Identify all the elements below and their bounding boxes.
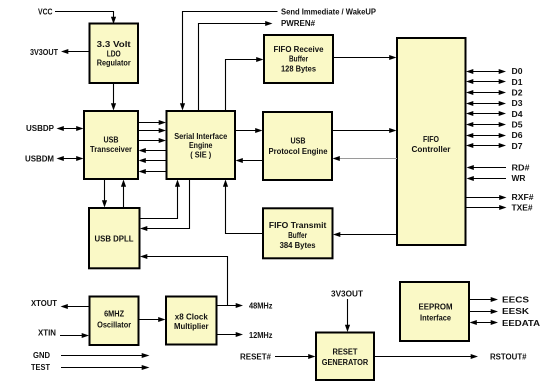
svg-text:Multiplier: Multiplier xyxy=(174,322,209,331)
svg-text:USB: USB xyxy=(291,136,306,145)
wire WR to controller xyxy=(467,176,507,181)
svg-text:USBDP: USBDP xyxy=(26,124,54,133)
svg-text:USB DPLL: USB DPLL xyxy=(95,234,134,243)
pin label EECS xyxy=(502,295,529,304)
svg-text:EEDATA: EEDATA xyxy=(502,319,540,328)
svg-text:EESK: EESK xyxy=(502,307,529,316)
svg-text:48MHz: 48MHz xyxy=(249,302,273,311)
svg-text:EEPROM: EEPROM xyxy=(419,302,453,311)
pin label D1 xyxy=(512,78,524,87)
block U2: USB Transceiver xyxy=(84,111,138,179)
pin label RESET# xyxy=(240,352,272,361)
wire transceiver to USB DPLL xyxy=(102,179,107,208)
wire XTIN to oscillator xyxy=(60,333,89,338)
svg-text:D3: D3 xyxy=(512,99,524,108)
wire EEDATA bidirectional xyxy=(470,320,499,325)
svg-text:FIFO: FIFO xyxy=(423,135,439,144)
wire SIE to transceiver 3 xyxy=(139,169,167,174)
wire SIE to PWREN# xyxy=(199,21,273,111)
wire USBDP bidirectional xyxy=(57,126,84,131)
pin label VCC xyxy=(38,8,53,17)
svg-text:EECS: EECS xyxy=(502,295,529,304)
svg-text:TEST: TEST xyxy=(31,363,50,372)
wire oscillator to multiplier xyxy=(139,317,166,322)
svg-text:TXE#: TXE# xyxy=(512,204,534,213)
wire USB DPLL to SIE xyxy=(140,180,181,219)
pin label XTIN xyxy=(38,328,56,337)
svg-text:D1: D1 xyxy=(512,78,524,87)
pin label D2 xyxy=(512,88,524,97)
wire transceiver to SIE 3 xyxy=(138,138,166,143)
wire SIE to FIFO receive buffer xyxy=(226,57,264,111)
wire D4 bidirectional xyxy=(466,111,506,116)
svg-text:RD#: RD# xyxy=(512,164,531,173)
pin label D0 xyxy=(512,67,524,76)
svg-text:RSTOUT#: RSTOUT# xyxy=(490,352,527,361)
svg-text:D6: D6 xyxy=(512,131,524,140)
pin label WR xyxy=(512,174,526,183)
svg-text:D2: D2 xyxy=(512,88,524,97)
pin label RD# xyxy=(512,164,531,173)
wire oscillator to XTOUT xyxy=(61,304,90,309)
wire USB DPLL to transceiver xyxy=(121,180,126,209)
wire controller to RXF# xyxy=(466,195,507,200)
wire VCC to regulator xyxy=(55,12,116,25)
wire GND xyxy=(61,353,150,358)
pin label D3 xyxy=(512,99,524,108)
wire multiplier to 48MHz and DPLL branch xyxy=(140,254,243,308)
svg-text:GENERATOR: GENERATOR xyxy=(322,358,369,367)
pin label D7 xyxy=(512,142,523,151)
pin label TEST xyxy=(31,363,50,372)
wire D1 bidirectional xyxy=(466,79,506,84)
block U9: FIFO Transmit Buffer 384 Bytes xyxy=(263,208,333,258)
svg-text:USBDM: USBDM xyxy=(25,154,54,163)
wire FIFO receive buffer to FIFO controller xyxy=(333,55,397,60)
block U11: EEPROM Interface xyxy=(400,282,469,341)
wire D5 bidirectional xyxy=(466,122,506,127)
svg-text:D5: D5 xyxy=(512,120,524,129)
wire USB protocol engine to FIFO controller xyxy=(332,128,397,133)
wire EEPROM to EESK xyxy=(469,309,498,314)
wire Send Immediate to SIE xyxy=(180,12,278,111)
wire D7 bidirectional xyxy=(466,143,506,148)
svg-text:Transceiver: Transceiver xyxy=(90,145,132,154)
wire D6 bidirectional xyxy=(466,133,506,138)
pin label RXF# xyxy=(512,193,535,202)
svg-text:LDO: LDO xyxy=(107,49,121,58)
svg-text:WR: WR xyxy=(512,174,526,183)
svg-text:USB: USB xyxy=(104,135,119,144)
pin label D6 xyxy=(512,131,524,140)
svg-text:XTIN: XTIN xyxy=(38,328,56,337)
wire D3 bidirectional xyxy=(466,101,506,106)
svg-text:RXF#: RXF# xyxy=(512,193,535,202)
pin label XTOUT xyxy=(31,299,57,308)
svg-text:D4: D4 xyxy=(512,110,524,119)
svg-text:Engine: Engine xyxy=(189,141,213,150)
svg-text:3V3OUT: 3V3OUT xyxy=(331,290,363,299)
pin label GND xyxy=(33,351,50,360)
block U1: 3.3 Volt LDO Regulator xyxy=(90,24,139,84)
wire reset generator to RSTOUT# xyxy=(374,354,478,359)
pin label Send Immediate / WakeUP xyxy=(281,8,376,17)
svg-text:Protocol Engine: Protocol Engine xyxy=(269,147,329,156)
pin label D4 xyxy=(512,110,524,119)
block U6: x8 Clock Multiplier xyxy=(166,297,217,345)
svg-text:3.3 Volt: 3.3 Volt xyxy=(97,40,131,49)
wire RESET# to reset generator xyxy=(275,354,316,359)
svg-text:Serial Interface: Serial Interface xyxy=(174,132,228,141)
svg-text:Send Immediate / WakeUP: Send Immediate / WakeUP xyxy=(281,8,376,17)
wire regulator to 3V3OUT xyxy=(61,49,89,54)
wire D2 bidirectional xyxy=(466,90,506,95)
pin label RSTOUT# xyxy=(490,352,527,361)
svg-text:D7: D7 xyxy=(512,142,523,151)
svg-text:Oscillator: Oscillator xyxy=(97,320,131,329)
pin label TXE# xyxy=(512,204,534,213)
wire transceiver to SIE 2 xyxy=(138,128,166,133)
pin label USBDP xyxy=(26,124,54,133)
block U8: USB Protocol Engine xyxy=(263,112,332,180)
svg-text:Buffer: Buffer xyxy=(288,231,307,240)
block U3: Serial Interface Engine (SIE) xyxy=(167,111,236,179)
signal label 12MHz xyxy=(249,331,273,340)
svg-text:D0: D0 xyxy=(512,67,524,76)
wire TEST xyxy=(61,365,150,370)
svg-text:Buffer: Buffer xyxy=(289,55,308,64)
svg-text:( SIE ): ( SIE ) xyxy=(190,150,211,159)
svg-text:3V3OUT: 3V3OUT xyxy=(30,48,58,57)
wire FIFO controller to FIFO transmit buffer xyxy=(333,232,397,237)
svg-text:12MHz: 12MHz xyxy=(249,331,273,340)
wire controller to TXE# xyxy=(466,205,507,210)
svg-text:6MHZ: 6MHZ xyxy=(104,310,124,319)
block U12: RESET GENERATOR xyxy=(316,333,374,381)
pin label PWREN# xyxy=(281,19,316,28)
wire SIE to USB DPLL xyxy=(140,179,190,231)
pin label 3V3OUT xyxy=(30,48,58,57)
block U5: 6MHZ Oscillator xyxy=(90,297,139,346)
wire 3V3OUT to reset generator xyxy=(345,299,350,332)
wire SIE to USB protocol engine xyxy=(235,128,263,133)
svg-text:RESET: RESET xyxy=(333,347,358,356)
pin label D5 xyxy=(512,120,524,129)
svg-text:XTOUT: XTOUT xyxy=(31,299,57,308)
pin label 3V3OUT bottom xyxy=(331,290,363,299)
svg-text:128 Bytes: 128 Bytes xyxy=(281,64,317,73)
wire USB protocol engine to SIE xyxy=(236,158,264,163)
wire USBDM bidirectional xyxy=(57,156,84,161)
wire FIFO transmit buffer to SIE xyxy=(223,180,263,234)
svg-text:GND: GND xyxy=(33,351,50,360)
svg-text:Controller: Controller xyxy=(412,145,451,154)
block U4: USB DPLL xyxy=(89,208,140,268)
svg-text:PWREN#: PWREN# xyxy=(281,19,316,28)
wire SIE to transceiver 2 xyxy=(139,158,167,163)
svg-text:Regulator: Regulator xyxy=(97,59,131,68)
wire regulator to transceiver xyxy=(111,83,116,111)
pin label EEDATA xyxy=(502,319,540,328)
wire transceiver to SIE 1 xyxy=(138,120,166,125)
block U7: FIFO Receive Buffer 128 Bytes xyxy=(264,35,333,83)
svg-text:Interface: Interface xyxy=(420,313,452,322)
svg-text:FIFO Receive: FIFO Receive xyxy=(274,45,325,54)
signal label 48MHz xyxy=(249,302,273,311)
svg-text:x8 Clock: x8 Clock xyxy=(175,312,209,321)
wire RD# to controller xyxy=(467,165,507,170)
svg-text:FIFO Transmit: FIFO Transmit xyxy=(269,221,327,230)
wire multiplier to 12MHz xyxy=(217,332,244,337)
wire SIE to transceiver 1 xyxy=(139,148,167,153)
block U10: FIFO Controller xyxy=(397,38,466,245)
wire D0 bidirectional xyxy=(466,69,506,74)
pin label EESK xyxy=(502,307,529,316)
svg-text:RESET#: RESET# xyxy=(240,352,272,361)
wire EEPROM to EECS xyxy=(469,297,498,302)
pin label USBDM xyxy=(25,154,54,163)
wire FIFO controller to USB protocol engine (gray) xyxy=(333,156,398,161)
svg-text:VCC: VCC xyxy=(38,8,53,17)
svg-text:384 Bytes: 384 Bytes xyxy=(280,241,317,250)
